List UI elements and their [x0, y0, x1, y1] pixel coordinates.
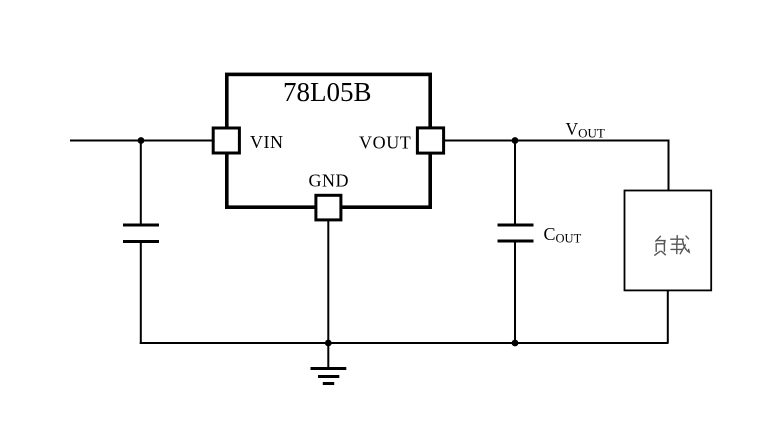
svg-text:VIN: VIN [250, 132, 284, 152]
load box [625, 191, 712, 291]
label load (负载) [655, 236, 689, 256]
wire load bottom to rail [667, 291, 669, 344]
wire CIN bottom to rail [140, 242, 142, 345]
wire input junction to CIN top [140, 141, 142, 226]
pin VIN pad [213, 128, 239, 153]
node COUT bottom junction [512, 340, 519, 347]
regulator U1 78L05B body [227, 74, 430, 207]
pin VOUT pad [417, 128, 443, 153]
capacitor COUT [498, 225, 534, 241]
svg-text:VOUT: VOUT [359, 133, 411, 153]
svg-text:78L05B: 78L05B [283, 77, 372, 107]
pin GND pad [316, 195, 341, 220]
wire COUT bottom to rail [514, 241, 516, 343]
capacitor CIN [123, 225, 159, 242]
node output junction [512, 137, 519, 144]
node input junction [138, 137, 145, 144]
wire output to load top [668, 140, 670, 192]
wire output [445, 140, 669, 142]
ground [311, 343, 347, 384]
wire GND pin to rail [327, 221, 329, 343]
svg-text:GND: GND [309, 170, 350, 190]
wire bottom rail [140, 342, 669, 344]
wire output junction to COUT top [514, 141, 516, 226]
wire input [70, 140, 213, 142]
node ground junction [325, 340, 332, 347]
